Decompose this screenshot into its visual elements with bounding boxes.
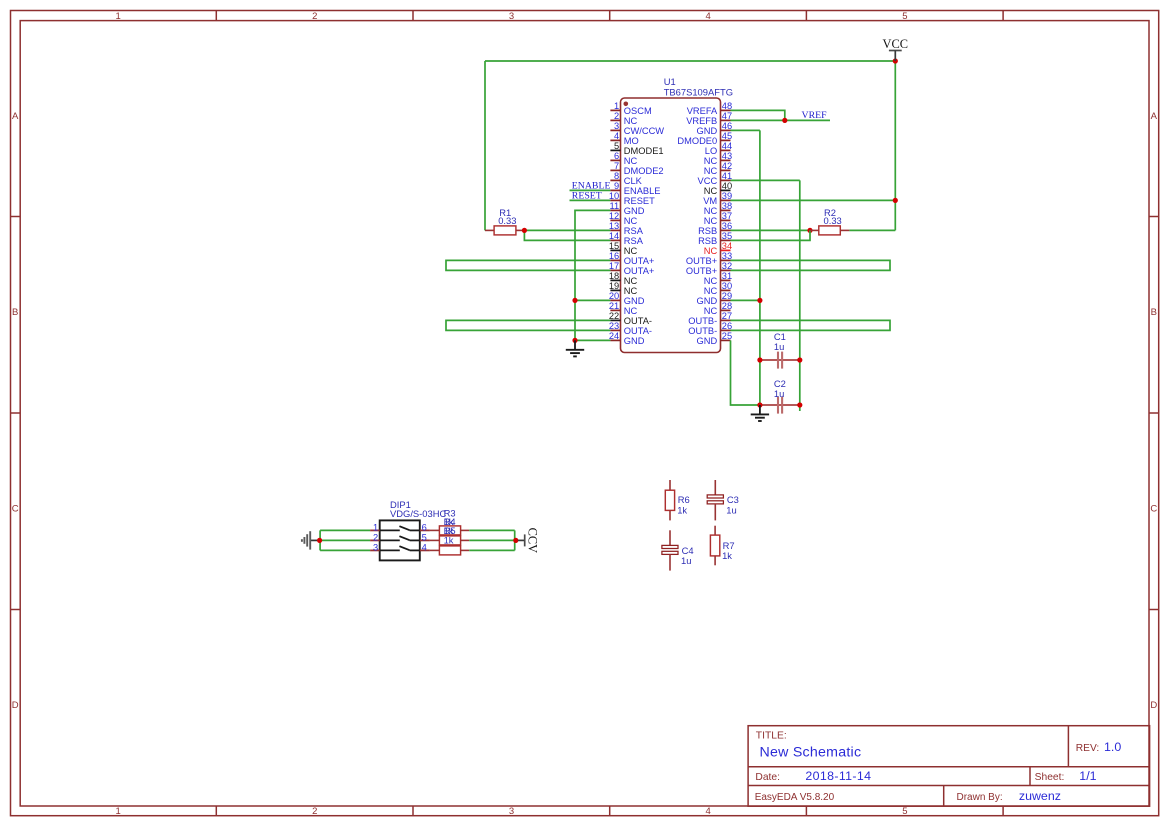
svg-text:OUTB-: OUTB- bbox=[688, 326, 717, 336]
svg-text:CCV: CCV bbox=[526, 528, 540, 554]
svg-text:VM: VM bbox=[703, 196, 717, 206]
resistor R1 left lead bbox=[485, 229, 494, 231]
svg-text:NC: NC bbox=[624, 156, 638, 166]
svg-text:19: 19 bbox=[609, 281, 619, 291]
resistor R3 body bbox=[439, 526, 460, 535]
DIP1 pin 2 stub bbox=[370, 539, 380, 541]
svg-text:GND: GND bbox=[697, 126, 718, 136]
svg-text:1/1: 1/1 bbox=[1079, 769, 1096, 783]
wire U1 pin 25 GND down to C2 node bbox=[731, 340, 760, 405]
svg-text:2: 2 bbox=[614, 111, 619, 121]
wire U1 pin 39 VM to VCC rail bbox=[731, 199, 896, 201]
svg-text:OUTB+: OUTB+ bbox=[686, 256, 717, 266]
border column ticks bottom bbox=[215, 806, 217, 816]
U1 pin 31 (NC) bbox=[704, 271, 732, 286]
U1 pin 15 (NC) bbox=[609, 241, 638, 256]
svg-text:0.33: 0.33 bbox=[824, 215, 842, 226]
resistor R7 top lead bbox=[714, 526, 716, 535]
svg-text:RSB: RSB bbox=[698, 226, 717, 236]
U1 pin 21 (NC) bbox=[609, 301, 638, 316]
resistor R2 body bbox=[819, 226, 841, 235]
svg-text:1: 1 bbox=[115, 806, 120, 817]
resistor R2 left lead bbox=[810, 229, 819, 231]
svg-text:17: 17 bbox=[609, 261, 619, 271]
border row ticks right bbox=[1149, 216, 1159, 218]
U1 pin 4 (MO) bbox=[610, 131, 638, 146]
U1 pin 23 (OUTA-) bbox=[609, 321, 652, 336]
U1 pin 34 (NC) bbox=[704, 241, 732, 256]
node junction DIP1 right VCC bbox=[513, 538, 518, 543]
node junction pin29/GND vertical bbox=[757, 298, 762, 303]
svg-text:NC: NC bbox=[624, 116, 638, 126]
svg-text:44: 44 bbox=[722, 141, 732, 151]
svg-text:OUTA-: OUTA- bbox=[624, 326, 652, 336]
border column ticks top bbox=[215, 11, 217, 21]
svg-text:8: 8 bbox=[614, 171, 619, 181]
wire GND bus vertical left (pins 11/20/24) bbox=[575, 210, 610, 340]
wire OUTA- loop pins 22-23 bbox=[446, 320, 610, 330]
wire U1 pin 29 GND to vertical bbox=[731, 299, 760, 301]
U1 pin 38 (NC) bbox=[704, 201, 732, 216]
wire R1 node down to U1 pin 14 bbox=[524, 230, 610, 240]
svg-text:1k: 1k bbox=[444, 535, 454, 546]
capacitor C4 bottom lead bbox=[669, 554, 671, 570]
svg-text:NC: NC bbox=[624, 276, 638, 286]
svg-text:6: 6 bbox=[422, 523, 427, 533]
svg-text:LO: LO bbox=[705, 146, 717, 156]
U1 pin 6 (NC) bbox=[610, 151, 637, 166]
svg-text:4: 4 bbox=[706, 11, 711, 22]
svg-text:1k: 1k bbox=[677, 504, 687, 515]
wire OUTA+ loop pins 16-17 bbox=[446, 260, 610, 270]
svg-text:5: 5 bbox=[902, 806, 907, 817]
svg-text:42: 42 bbox=[722, 161, 732, 171]
svg-text:VDG/S-03HC: VDG/S-03HC bbox=[390, 508, 446, 519]
svg-text:34: 34 bbox=[722, 241, 732, 251]
svg-text:VCC: VCC bbox=[883, 37, 908, 51]
svg-text:RSA: RSA bbox=[624, 226, 644, 236]
U1 pin 13 (RSA) bbox=[609, 221, 644, 236]
U1 pin 24 (GND) bbox=[609, 331, 645, 346]
svg-text:NC: NC bbox=[704, 186, 718, 196]
node junction C2 left bbox=[757, 402, 762, 407]
capacitor C1 plates bbox=[777, 352, 779, 369]
resistor R6 bottom lead bbox=[669, 510, 671, 520]
U1 pin 19 (NC) bbox=[609, 281, 638, 296]
resistor R5 left lead bbox=[430, 549, 440, 551]
U1 pin 11 (GND) bbox=[610, 201, 645, 216]
svg-text:NC: NC bbox=[704, 166, 718, 176]
resistor R7 bottom lead bbox=[714, 556, 716, 565]
svg-text:C: C bbox=[1150, 503, 1157, 514]
U1 pin 48 (VREFA) bbox=[687, 101, 732, 116]
wire DIP1 right bracket bbox=[514, 530, 516, 550]
wire VCC vertical right (pin41 to C2) bbox=[799, 180, 801, 411]
resistor R2 right lead bbox=[840, 229, 849, 231]
svg-text:A: A bbox=[12, 111, 19, 122]
wire ENABLE to U1 pin 9 bbox=[570, 189, 611, 191]
svg-text:3: 3 bbox=[509, 806, 514, 817]
svg-text:40: 40 bbox=[722, 181, 732, 191]
DIP1 pin 6 stub bbox=[420, 529, 430, 531]
svg-text:DMODE2: DMODE2 bbox=[624, 166, 664, 176]
U1 pin 1 (OSCM) bbox=[610, 101, 651, 116]
node junction C1 right bbox=[797, 357, 802, 362]
svg-text:NC: NC bbox=[624, 216, 638, 226]
U1 pin 37 (NC) bbox=[704, 211, 732, 226]
wire VCC rail top horizontal bbox=[485, 60, 895, 62]
svg-text:RSB: RSB bbox=[698, 236, 717, 246]
U1 pin 42 (NC) bbox=[704, 161, 732, 176]
U1 pin 28 (NC) bbox=[704, 301, 732, 316]
svg-text:22: 22 bbox=[609, 311, 619, 321]
wire R2 node down to U1 pin 35 bbox=[731, 230, 811, 240]
svg-text:7: 7 bbox=[614, 161, 619, 171]
capacitor C1 lead bbox=[760, 359, 800, 361]
svg-text:GND: GND bbox=[697, 296, 718, 306]
svg-text:5: 5 bbox=[422, 533, 427, 543]
U1 pin 36 (RSB) bbox=[698, 221, 732, 236]
svg-text:VREF: VREF bbox=[802, 110, 828, 121]
svg-text:NC: NC bbox=[704, 306, 718, 316]
svg-text:1u: 1u bbox=[774, 341, 784, 352]
svg-text:NC: NC bbox=[704, 276, 718, 286]
U1 pin 20 (GND) bbox=[609, 291, 645, 306]
node junction VCC rail top bbox=[893, 58, 898, 63]
svg-text:RSA: RSA bbox=[624, 236, 644, 246]
wire U1 pin 41 VCC to vertical bbox=[731, 179, 800, 181]
svg-text:18: 18 bbox=[609, 271, 619, 281]
svg-text:DMODE1: DMODE1 bbox=[624, 146, 664, 156]
wire RESET to U1 pin 10 bbox=[570, 199, 611, 201]
title block frame bbox=[748, 726, 1150, 807]
svg-text:43: 43 bbox=[722, 151, 732, 161]
U1 pin 16 (OUTA+) bbox=[609, 251, 655, 266]
node junction VREF bbox=[782, 118, 787, 123]
svg-text:1.0: 1.0 bbox=[1104, 740, 1121, 754]
wire R2 to VCC rail bbox=[849, 229, 895, 231]
svg-text:D: D bbox=[1150, 700, 1157, 711]
svg-text:11: 11 bbox=[610, 201, 620, 211]
wire R5 to VCC bracket bbox=[469, 549, 515, 551]
U1 pin 45 (DMODE0) bbox=[677, 131, 732, 146]
svg-text:Sheet:: Sheet: bbox=[1035, 772, 1065, 783]
DIP1 pin 3 stub bbox=[370, 549, 380, 551]
DIP1 pin 1 stub bbox=[370, 529, 380, 531]
svg-text:5: 5 bbox=[902, 11, 907, 22]
wire R1 to U1 pin 13 bbox=[524, 229, 610, 231]
svg-text:9: 9 bbox=[614, 181, 619, 191]
svg-text:RESET: RESET bbox=[624, 196, 655, 206]
svg-text:30: 30 bbox=[722, 281, 732, 291]
svg-text:A: A bbox=[1151, 111, 1158, 122]
resistor R1 body bbox=[494, 226, 516, 235]
svg-text:DMODE0: DMODE0 bbox=[677, 136, 717, 146]
svg-text:New Schematic: New Schematic bbox=[760, 745, 862, 761]
U1 pin 29 (GND) bbox=[697, 291, 733, 306]
svg-text:OUTB+: OUTB+ bbox=[686, 266, 717, 276]
wire to DIP1 pin 3 bbox=[320, 549, 370, 551]
svg-text:1u: 1u bbox=[681, 555, 691, 566]
DIP1 switch element 1 bbox=[380, 529, 400, 531]
svg-text:zuwenz: zuwenz bbox=[1019, 789, 1061, 803]
svg-text:TITLE:: TITLE: bbox=[756, 731, 787, 742]
resistor R1 right lead bbox=[516, 229, 525, 231]
svg-text:13: 13 bbox=[609, 221, 619, 231]
U1 pin 22 (OUTA-) bbox=[609, 311, 652, 326]
svg-text:B: B bbox=[12, 307, 18, 318]
svg-text:4: 4 bbox=[706, 806, 711, 817]
svg-text:1u: 1u bbox=[774, 388, 784, 399]
svg-text:C: C bbox=[12, 503, 19, 514]
resistor R5 body bbox=[439, 546, 460, 555]
node junction C1 left bbox=[757, 357, 762, 362]
svg-text:CW/CCW: CW/CCW bbox=[624, 126, 664, 136]
wire to DIP1 pin 1 bbox=[320, 529, 370, 531]
svg-text:NC: NC bbox=[704, 206, 718, 216]
resistor R3 right lead bbox=[461, 529, 470, 531]
capacitor C3 bottom lead bbox=[714, 504, 716, 521]
border row ticks left bbox=[11, 216, 21, 218]
svg-text:EasyEDA V5.8.20: EasyEDA V5.8.20 bbox=[755, 792, 835, 803]
U1 pin 7 (DMODE2) bbox=[610, 161, 663, 176]
capacitor C2 plates bbox=[777, 397, 779, 414]
wire DIP1 left bracket bbox=[319, 530, 321, 550]
resistor R7 body bbox=[710, 535, 719, 556]
svg-text:15: 15 bbox=[609, 241, 619, 251]
svg-text:0.33: 0.33 bbox=[498, 215, 516, 226]
svg-text:5: 5 bbox=[614, 141, 619, 151]
U1 pin 44 (LO) bbox=[705, 141, 732, 156]
U1 pin 40 (NC) bbox=[704, 181, 732, 196]
U1 pin 35 (RSB) bbox=[698, 231, 732, 246]
svg-text:GND: GND bbox=[697, 336, 718, 346]
svg-text:GND: GND bbox=[624, 336, 645, 346]
DIP1 pin 4 stub bbox=[420, 549, 430, 551]
U1 pin 2 (NC) bbox=[610, 111, 637, 126]
wire R4 to VCC bracket bbox=[469, 539, 515, 541]
svg-text:25: 25 bbox=[722, 331, 732, 341]
svg-text:1u: 1u bbox=[726, 504, 736, 515]
capacitor C4 plates bbox=[662, 545, 678, 548]
svg-text:16: 16 bbox=[609, 251, 619, 261]
svg-text:21: 21 bbox=[609, 301, 619, 311]
svg-text:NC: NC bbox=[624, 286, 638, 296]
U1 pin 30 (NC) bbox=[704, 281, 732, 296]
svg-text:1: 1 bbox=[614, 101, 619, 111]
svg-text:B: B bbox=[1151, 307, 1157, 318]
wire U1 pin 36 RSB to R2 bbox=[731, 229, 811, 231]
ground symbol below C2 bbox=[759, 405, 761, 414]
svg-text:NC: NC bbox=[704, 156, 718, 166]
svg-text:2: 2 bbox=[312, 806, 317, 817]
U1 pin 46 (GND) bbox=[697, 121, 733, 136]
svg-text:1: 1 bbox=[373, 523, 378, 533]
svg-text:D: D bbox=[12, 700, 19, 711]
node junction VM/VCC rail bbox=[893, 198, 898, 203]
resistor R6 body bbox=[665, 490, 674, 510]
svg-text:OUTA+: OUTA+ bbox=[624, 256, 655, 266]
U1 pin 3 (CW/CCW) bbox=[610, 121, 664, 136]
resistor R4 right lead bbox=[461, 539, 470, 541]
svg-text:TB67S109AFTG: TB67S109AFTG bbox=[664, 87, 733, 98]
wire R3 to VCC bracket bbox=[469, 529, 515, 531]
svg-text:GND: GND bbox=[624, 296, 645, 306]
capacitor C4 top lead bbox=[669, 530, 671, 545]
node junction R2 left bbox=[807, 228, 812, 233]
svg-text:3: 3 bbox=[373, 543, 378, 553]
capacitor C2 lead bbox=[760, 404, 800, 406]
wire GND vertical right (pin46 to C2) bbox=[759, 130, 761, 405]
svg-text:NC: NC bbox=[704, 246, 718, 256]
svg-text:6: 6 bbox=[614, 151, 619, 161]
U1 pin 41 (VCC) bbox=[698, 171, 733, 186]
svg-text:3: 3 bbox=[614, 121, 619, 131]
svg-text:3: 3 bbox=[509, 11, 514, 22]
U1 pin 17 (OUTA+) bbox=[609, 261, 655, 276]
U1 pin 14 (RSA) bbox=[609, 231, 644, 246]
wire U1 pin 47 VREFB / VREF stub bbox=[731, 119, 831, 121]
svg-text:Drawn By:: Drawn By: bbox=[957, 792, 1003, 803]
U1 pin 5 (DMODE1) bbox=[610, 141, 663, 156]
svg-text:NC: NC bbox=[624, 306, 638, 316]
svg-text:10: 10 bbox=[609, 191, 619, 201]
ground symbol left of DIP1 (rotated) bbox=[310, 539, 319, 541]
svg-text:12: 12 bbox=[609, 211, 619, 221]
U1 pin-1 marker dot bbox=[624, 102, 629, 107]
svg-text:OUTA+: OUTA+ bbox=[624, 266, 655, 276]
svg-text:OUTA-: OUTA- bbox=[624, 316, 652, 326]
svg-text:2018-11-14: 2018-11-14 bbox=[805, 769, 871, 783]
DIP switch DIP1 body bbox=[380, 520, 420, 560]
svg-text:U1: U1 bbox=[664, 76, 676, 87]
svg-text:NC: NC bbox=[624, 246, 638, 256]
op-amp U1 body TB67S109AFTG bbox=[621, 98, 721, 353]
wire to DIP1 pin 2 bbox=[320, 539, 371, 541]
svg-text:2: 2 bbox=[373, 533, 378, 543]
wire U1 pin 48 VREFA to VREF node bbox=[731, 110, 785, 120]
wire VCC rail top-left vertical bbox=[484, 61, 486, 230]
svg-text:4: 4 bbox=[614, 131, 619, 141]
DIP1 pin 5 stub bbox=[420, 539, 430, 541]
U1 pin 27 (OUTB-) bbox=[688, 311, 732, 326]
wire OUTB- loop pins 27-26 bbox=[731, 320, 891, 330]
svg-text:1: 1 bbox=[115, 11, 120, 22]
resistor R4 body bbox=[439, 536, 460, 545]
U1 pin 32 (OUTB+) bbox=[686, 261, 732, 276]
wire GND bus to pin 24 bbox=[575, 339, 610, 341]
svg-text:VREFB: VREFB bbox=[686, 116, 717, 126]
resistor R4 left lead bbox=[430, 539, 440, 541]
svg-text:24: 24 bbox=[609, 331, 619, 341]
U1 pin 10 (RESET) bbox=[609, 191, 655, 206]
svg-text:31: 31 bbox=[722, 271, 732, 281]
U1 pin 26 (OUTB-) bbox=[688, 321, 732, 336]
svg-text:28: 28 bbox=[722, 301, 732, 311]
node junction pin24/GND bus bbox=[572, 338, 577, 343]
node junction pin20/GND bus bbox=[572, 298, 577, 303]
U1 pin 33 (OUTB+) bbox=[686, 251, 732, 266]
svg-text:VREFA: VREFA bbox=[687, 106, 718, 116]
svg-text:4: 4 bbox=[422, 543, 427, 553]
U1 pin 8 (CLK) bbox=[610, 171, 642, 186]
svg-text:38: 38 bbox=[722, 201, 732, 211]
svg-text:1k: 1k bbox=[722, 550, 732, 561]
power symbol VCC right of DIP1 bbox=[518, 539, 525, 541]
svg-text:NC: NC bbox=[704, 216, 718, 226]
svg-text:ENABLE: ENABLE bbox=[624, 186, 661, 196]
node junction C2 right bbox=[797, 402, 802, 407]
svg-text:NC: NC bbox=[704, 286, 718, 296]
U1 pin 39 (VM) bbox=[703, 191, 732, 206]
svg-text:OUTB-: OUTB- bbox=[688, 316, 717, 326]
svg-text:45: 45 bbox=[722, 131, 732, 141]
wire VCC rail right vertical bbox=[894, 61, 896, 230]
capacitor C3 top lead bbox=[714, 480, 716, 495]
DIP1 switch element 2 bbox=[380, 539, 400, 541]
resistor R3 left lead bbox=[430, 529, 440, 531]
ground symbol below U1 GND bus bbox=[574, 340, 576, 349]
svg-text:REV:: REV: bbox=[1076, 743, 1099, 754]
capacitor C3 plates bbox=[707, 495, 723, 498]
svg-text:CLK: CLK bbox=[624, 176, 643, 186]
resistor R6 top lead bbox=[669, 480, 671, 490]
node junction DIP1 left bbox=[317, 538, 322, 543]
svg-text:Date:: Date: bbox=[755, 772, 780, 783]
U1 pin 18 (NC) bbox=[609, 271, 638, 286]
svg-text:GND: GND bbox=[624, 206, 645, 216]
svg-text:VCC: VCC bbox=[698, 176, 718, 186]
U1 pin 43 (NC) bbox=[704, 151, 732, 166]
U1 pin 25 (GND) bbox=[697, 331, 733, 346]
svg-text:37: 37 bbox=[722, 211, 732, 221]
resistor R5 right lead bbox=[461, 549, 470, 551]
wire GND bus to pin 20 bbox=[575, 299, 610, 301]
U1 pin 12 (NC) bbox=[609, 211, 638, 226]
svg-text:23: 23 bbox=[609, 321, 619, 331]
svg-text:2: 2 bbox=[312, 11, 317, 22]
U1 pin 9 (ENABLE) bbox=[610, 181, 660, 196]
wire U1 pin 46 GND to vertical bbox=[731, 129, 760, 131]
svg-text:20: 20 bbox=[609, 291, 619, 301]
DIP1 switch element 3 bbox=[380, 549, 400, 551]
svg-text:OSCM: OSCM bbox=[624, 106, 652, 116]
node junction R1 right bbox=[522, 228, 527, 233]
svg-text:14: 14 bbox=[609, 231, 619, 241]
svg-text:MO: MO bbox=[624, 136, 639, 146]
wire OUTB+ loop pins 33-32 bbox=[731, 260, 891, 270]
U1 pin 47 (VREFB) bbox=[686, 111, 732, 126]
